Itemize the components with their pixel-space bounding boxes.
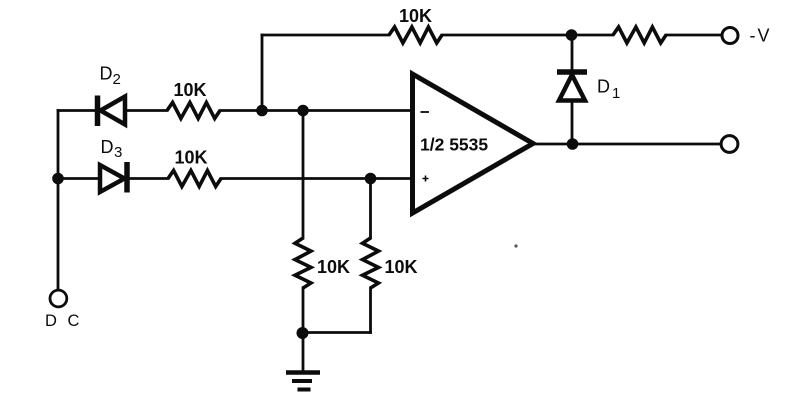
label op-amp inverting input (-) — [421, 111, 430, 113]
wire: op-amp output to output terminal — [533, 143, 720, 146]
ground (bars) — [286, 370, 320, 375]
node: output / D1 junction — [567, 138, 579, 150]
svg-text:D: D — [101, 137, 114, 157]
diode D3 (cathode bar) — [124, 162, 130, 193]
svg-text:1: 1 — [612, 85, 620, 102]
resistor R2 (to -V) — [613, 27, 666, 43]
wire: D2 to R3 — [127, 109, 167, 112]
svg-text:10K: 10K — [174, 148, 207, 168]
resistor R1 10K (feedback) — [389, 27, 442, 43]
svg-text:-V: -V — [750, 26, 772, 46]
label op-amp non-inverting input (+) — [423, 176, 429, 182]
wire: left input rail vertical — [57, 111, 60, 291]
ground (stem) — [302, 333, 305, 371]
resistor R3 10K (inverting input) — [167, 103, 220, 119]
wire: R2 to -V terminal — [666, 34, 722, 37]
wire: R5 to ground node — [302, 288, 305, 333]
wire: non-inverting node down to R6 — [369, 179, 372, 239]
op-amp U1 (1/2 5535) — [413, 74, 534, 213]
wire: D1 anode down to output node — [571, 101, 574, 145]
node: feedback joins inverting line — [256, 105, 268, 117]
svg-text:10K: 10K — [385, 257, 418, 277]
svg-text:3: 3 — [114, 144, 122, 161]
wire: feedback top horizontal, middle segment — [442, 34, 613, 37]
node: R6 joins non-inverting line — [365, 173, 377, 185]
wire: R3 to op-amp inverting input — [220, 109, 412, 112]
wire: R4 to op-amp non-inverting input — [221, 177, 412, 180]
wire: D3 to R4 — [129, 177, 168, 180]
diode D2 (triangle pointing left) — [101, 97, 126, 125]
wire: row1 left rail to D2 — [58, 109, 96, 112]
svg-text:2: 2 — [113, 71, 121, 88]
wire: feedback vertical drop to inverting node — [261, 35, 264, 111]
resistor R5 10K (vertical, to ground) — [295, 238, 311, 288]
svg-text:1/2 5535: 1/2 5535 — [420, 135, 488, 155]
svg-text:D: D — [100, 64, 113, 84]
svg-text:10K: 10K — [399, 6, 432, 26]
svg-text:10K: 10K — [173, 80, 206, 100]
resistor R4 10K (non-inverting input) — [168, 171, 221, 187]
node: left rail / D3 junction — [52, 173, 64, 185]
wire: inverting node down to R5 — [302, 111, 305, 239]
diode D3 (triangle pointing right) — [100, 165, 125, 192]
terminal: output — [721, 136, 738, 153]
wire: R6 bottom down — [369, 288, 372, 333]
node: ground junction — [297, 327, 309, 339]
wire: R6 bottom across to ground node — [303, 331, 371, 334]
svg-text:D C: D C — [45, 312, 82, 330]
svg-text:D: D — [597, 77, 610, 97]
diode D1 (cathode bar) — [557, 69, 587, 75]
wire: feedback top horizontal, left segment — [262, 34, 389, 37]
diode D1 (triangle, anode below pointing up) — [559, 75, 585, 101]
wire: row2 left rail to D3 — [58, 177, 100, 180]
terminal: DC input — [50, 290, 67, 307]
diode D2 (cathode bar) — [95, 96, 101, 127]
node: R5 joins inverting line — [297, 105, 309, 117]
wire: junction down to D1 cathode — [571, 35, 574, 70]
resistor R6 10K (vertical, to ground) — [363, 238, 379, 288]
svg-text:10K: 10K — [317, 257, 350, 277]
terminal: -V supply — [722, 28, 738, 44]
node: feedback / D1 / R2 junction — [566, 29, 578, 41]
